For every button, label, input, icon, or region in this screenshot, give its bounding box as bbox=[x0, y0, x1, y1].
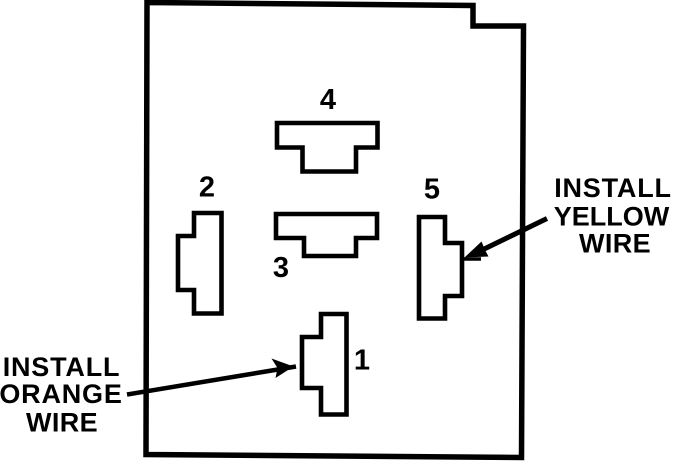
svg-text:5: 5 bbox=[424, 174, 440, 206]
svg-text:WIRE: WIRE bbox=[579, 229, 651, 259]
svg-text:ORANGE: ORANGE bbox=[0, 379, 123, 409]
svg-text:INSTALL: INSTALL bbox=[554, 173, 672, 203]
svg-text:4: 4 bbox=[320, 84, 336, 116]
svg-text:WIRE: WIRE bbox=[26, 408, 98, 438]
svg-text:1: 1 bbox=[354, 345, 370, 377]
svg-text:INSTALL: INSTALL bbox=[3, 352, 121, 382]
svg-text:3: 3 bbox=[273, 252, 289, 284]
svg-text:YELLOW: YELLOW bbox=[554, 202, 670, 232]
svg-text:2: 2 bbox=[199, 172, 215, 204]
